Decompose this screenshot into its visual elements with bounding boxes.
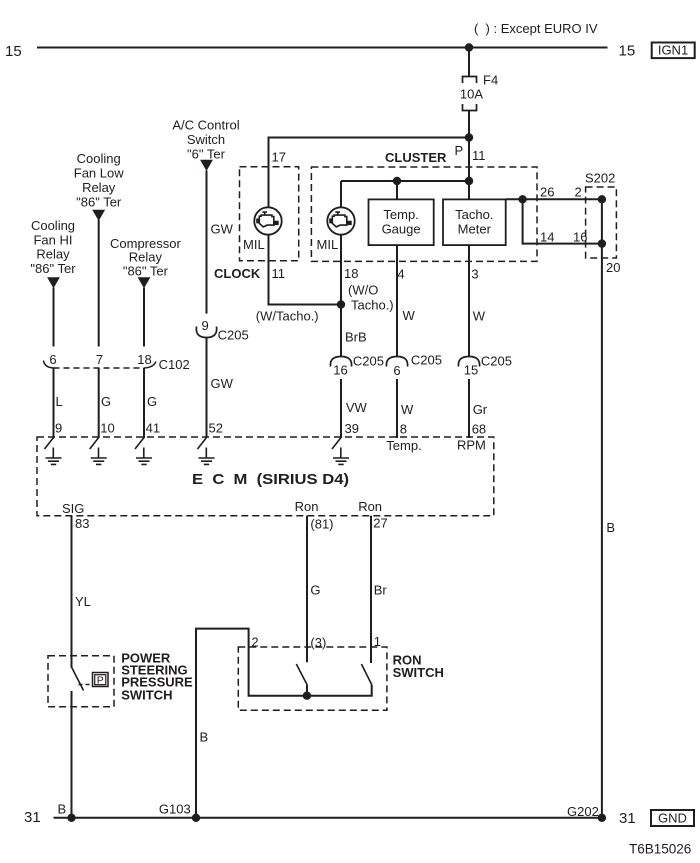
svg-text:9: 9 — [55, 421, 62, 436]
svg-text:T6B15026: T6B15026 — [629, 842, 691, 857]
svg-text:Ron: Ron — [295, 499, 319, 514]
svg-text:( ) : Except EURO IV: ( ) : Except EURO IV — [474, 21, 598, 36]
svg-text:6: 6 — [393, 363, 400, 378]
svg-text:SIG: SIG — [62, 501, 84, 516]
svg-text:7: 7 — [96, 352, 103, 367]
svg-text:27: 27 — [373, 516, 387, 531]
svg-text:9: 9 — [202, 318, 209, 333]
svg-text:GW: GW — [211, 376, 234, 391]
svg-text:SWITCH: SWITCH — [393, 665, 444, 680]
svg-text:20: 20 — [606, 260, 620, 275]
svg-text:14: 14 — [540, 230, 554, 245]
svg-text:16: 16 — [573, 230, 587, 245]
svg-text:10A: 10A — [460, 87, 483, 102]
svg-text:(81): (81) — [310, 517, 333, 532]
svg-text:31: 31 — [24, 809, 41, 826]
svg-text:"86" Ter: "86" Ter — [30, 261, 76, 276]
svg-text:26: 26 — [540, 185, 554, 200]
svg-text:18: 18 — [137, 352, 151, 367]
svg-text:18: 18 — [344, 266, 358, 281]
svg-text:RPM: RPM — [457, 437, 486, 452]
svg-text:P: P — [455, 143, 464, 158]
svg-text:C205: C205 — [481, 354, 512, 369]
svg-text:BrB: BrB — [345, 330, 367, 345]
svg-text:17: 17 — [272, 150, 286, 165]
svg-text:3: 3 — [471, 266, 478, 281]
svg-text:G103: G103 — [159, 802, 191, 817]
svg-text:C205: C205 — [411, 353, 442, 368]
svg-text:68: 68 — [472, 421, 486, 436]
svg-text:Fan HI: Fan HI — [33, 233, 72, 248]
svg-text:G: G — [310, 583, 320, 598]
svg-text:G: G — [101, 394, 111, 409]
svg-text:(3): (3) — [310, 635, 326, 650]
svg-text:1: 1 — [374, 634, 381, 649]
svg-text:MIL: MIL — [317, 237, 339, 252]
svg-text:83: 83 — [75, 516, 89, 531]
svg-text:16: 16 — [333, 362, 347, 377]
svg-text:C102: C102 — [159, 357, 190, 372]
svg-text:2: 2 — [575, 185, 582, 200]
svg-text:Gr: Gr — [473, 402, 488, 417]
svg-text:31: 31 — [619, 810, 636, 827]
svg-text:Relay: Relay — [129, 250, 163, 265]
svg-text:(W/Tacho.): (W/Tacho.) — [256, 309, 319, 324]
svg-text:YL: YL — [75, 594, 91, 609]
svg-text:4: 4 — [397, 266, 404, 281]
svg-text:15: 15 — [619, 43, 636, 60]
svg-text:Tacho.: Tacho. — [455, 207, 493, 222]
svg-text:Cooling: Cooling — [31, 218, 75, 233]
svg-text:GW: GW — [211, 222, 234, 237]
svg-text:W: W — [403, 308, 416, 323]
svg-text:39: 39 — [345, 421, 359, 436]
svg-text:52: 52 — [209, 421, 223, 436]
svg-text:8: 8 — [400, 421, 407, 436]
svg-text:B: B — [606, 520, 615, 535]
svg-text:C205: C205 — [353, 354, 384, 369]
svg-text:Cooling: Cooling — [77, 151, 121, 166]
svg-text:"86" Ter: "86" Ter — [123, 264, 169, 279]
svg-text:W: W — [401, 402, 414, 417]
svg-text:B: B — [200, 730, 209, 745]
svg-text:Br: Br — [374, 583, 388, 598]
svg-text:A/C Control: A/C Control — [172, 117, 239, 132]
svg-text:IGN1: IGN1 — [658, 43, 688, 58]
svg-text:Relay: Relay — [36, 247, 70, 262]
svg-text:"6" Ter: "6" Ter — [187, 147, 226, 162]
svg-text:15: 15 — [464, 362, 478, 377]
svg-text:MIL: MIL — [243, 237, 265, 252]
svg-text:G202: G202 — [567, 804, 599, 819]
svg-text:Gauge: Gauge — [382, 222, 421, 237]
svg-text:VW: VW — [346, 400, 368, 415]
svg-text:Temp.: Temp. — [383, 207, 418, 222]
svg-text:P: P — [97, 675, 104, 687]
svg-text:G: G — [147, 394, 157, 409]
svg-text:GND: GND — [658, 810, 687, 825]
svg-text:Meter: Meter — [458, 222, 492, 237]
svg-text:2: 2 — [251, 635, 258, 650]
svg-text:"86" Ter: "86" Ter — [76, 195, 122, 210]
svg-text:10: 10 — [100, 421, 114, 436]
svg-text:6: 6 — [49, 352, 56, 367]
svg-text:E C M (SIRIUS D4): E C M (SIRIUS D4) — [192, 471, 349, 488]
svg-text:41: 41 — [146, 421, 160, 436]
svg-text:SWITCH: SWITCH — [121, 688, 172, 703]
svg-text:Ron: Ron — [358, 499, 382, 514]
svg-text:Tacho.): Tacho.) — [351, 297, 394, 312]
svg-text:C205: C205 — [218, 328, 249, 343]
svg-text:S202: S202 — [585, 171, 615, 186]
svg-text:L: L — [56, 394, 63, 409]
svg-text:F4: F4 — [483, 73, 498, 88]
svg-text:Switch: Switch — [187, 132, 225, 147]
svg-text:Relay: Relay — [82, 180, 116, 195]
svg-text:15: 15 — [5, 43, 22, 60]
svg-text:Temp.: Temp. — [386, 438, 421, 453]
svg-text:11: 11 — [472, 148, 486, 163]
svg-text:11: 11 — [272, 266, 286, 281]
svg-text:W: W — [473, 309, 486, 324]
svg-text:(W/O: (W/O — [348, 282, 378, 297]
svg-text:CLUSTER: CLUSTER — [385, 150, 447, 165]
svg-text:B: B — [58, 802, 67, 817]
svg-text:Fan Low: Fan Low — [74, 166, 124, 181]
svg-text:CLOCK: CLOCK — [214, 266, 261, 281]
